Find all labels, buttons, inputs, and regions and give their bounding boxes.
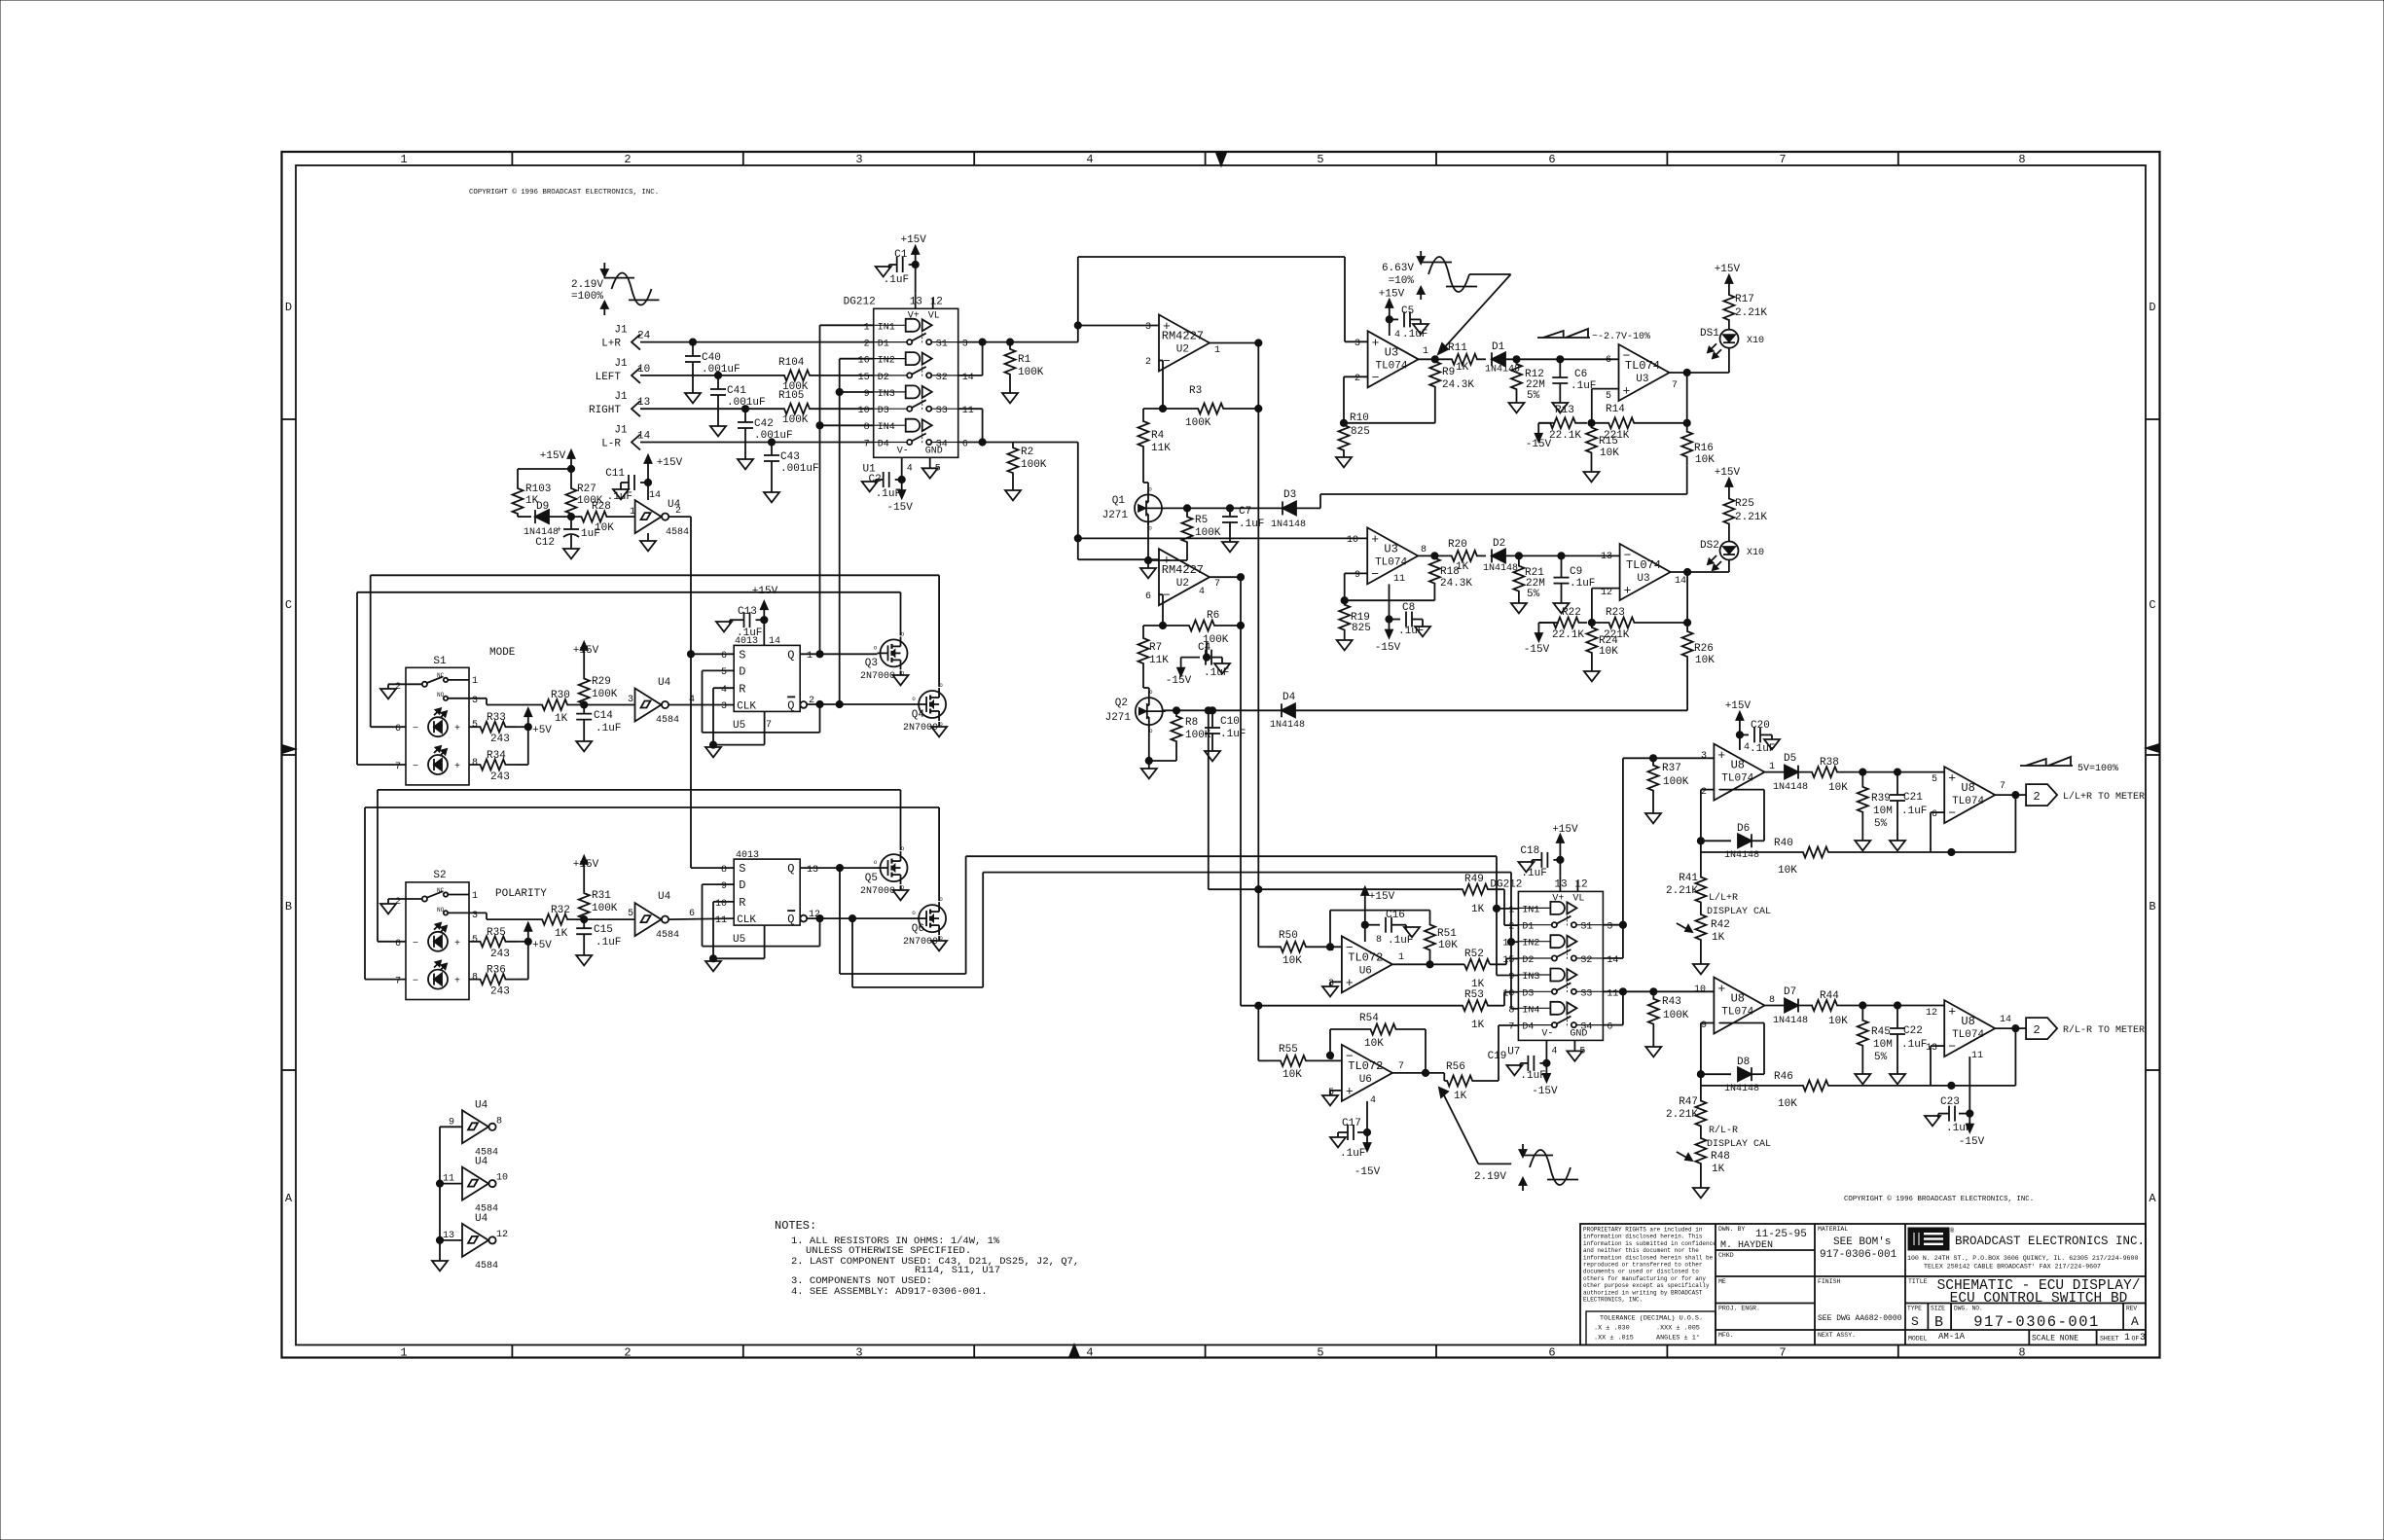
resistor R32 [469,905,584,940]
svg-text:GND: GND [925,446,943,456]
svg-text:+: + [454,762,460,772]
svg-text:and neither this document nor: and neither this document nor the [1583,1247,1699,1254]
svg-text:4: 4 [1744,742,1750,753]
svg-text:D4: D4 [1522,1022,1534,1033]
diode D8 [1701,1023,1764,1095]
transistor Q5 2N7000 [860,845,909,900]
svg-text:D3: D3 [878,406,889,416]
resistor R46 [1701,1071,1931,1110]
diode D7 [1764,986,1808,1026]
svg-text:TELEX 250142 CABLE BROADCAST: TELEX 250142 CABLE BROADCAST' FAX 217/22… [1924,1264,2101,1271]
resistor R2 [1005,443,1047,501]
svg-text:24.3K: 24.3K [1442,379,1474,391]
wire Q5 drain [900,790,902,850]
svg-text:4: 4 [1199,587,1205,597]
wire D2 out [1505,553,1620,559]
waveform annotation 2.19V=100% [571,263,660,315]
potentiometer R42 [1677,904,1730,974]
svg-text:14: 14 [637,431,651,443]
svg-text:R26: R26 [1694,643,1714,655]
wire U8C plus [1943,771,1945,773]
svg-text:R35: R35 [487,927,506,939]
title block company band with BE logo [1905,1227,2146,1276]
capacitor C9 [1554,555,1596,613]
svg-text:2: 2 [1355,374,1360,384]
svg-text:Q3: Q3 [865,658,878,669]
svg-text:R34: R34 [487,750,506,762]
wire Q3 drain [900,592,902,636]
svg-text:R51: R51 [1437,928,1457,940]
svg-text:L/L+R: L/L+R [1709,892,1738,904]
svg-text:R40: R40 [1774,838,1793,849]
svg-text:.1uF: .1uF [1901,806,1927,817]
diode D1 [1480,341,1520,376]
svg-text:Q6: Q6 [912,923,924,935]
svg-text:.1uF: .1uF [596,723,621,734]
svg-text:5: 5 [1317,1346,1323,1360]
svg-text:R104: R104 [778,357,805,369]
op-amp U8A TL074 [1701,742,1775,801]
svg-text:.001uF: .001uF [727,397,766,409]
wire U4 spare inputs to ground [432,1127,462,1271]
svg-text:S2: S2 [936,373,948,383]
svg-text:M. HAYDEN: M. HAYDEN [1720,1240,1773,1251]
inverter U4 pin3-4 [635,677,696,726]
wire S4 riser [1074,443,1159,560]
svg-text:5%: 5% [1874,1052,1888,1063]
svg-text:R9: R9 [1442,367,1455,378]
svg-text:IN2: IN2 [878,356,895,367]
svg-text:U8: U8 [1731,992,1745,1006]
svg-text:+15V: +15V [1715,264,1741,275]
svg-text:10K: 10K [1599,646,1618,658]
node R27/D9/R28/C12 [567,514,574,520]
svg-text:C2: C2 [868,474,881,485]
svg-text:IN1: IN1 [1522,905,1539,915]
wire D5 node [1851,769,1944,775]
svg-text:2: 2 [624,1346,631,1360]
wire U6A plus gnd [1322,982,1342,996]
svg-text:S1: S1 [1580,922,1592,933]
svg-text:TL074: TL074 [1625,359,1660,373]
svg-text:10K: 10K [1695,655,1715,666]
resistor R43 [1645,991,1689,1057]
svg-text:VL: VL [1572,893,1584,904]
svg-text:13: 13 [807,865,818,876]
svg-text:C41: C41 [727,385,746,397]
svg-text:.XXX ± .005: .XXX ± .005 [1656,1325,1700,1333]
resistor R16 [1681,423,1715,466]
svg-text:14: 14 [962,373,974,383]
svg-text:FINISH: FINISH [1818,1278,1841,1285]
svg-text:R36: R36 [487,965,506,977]
resistor R8 [1172,710,1211,747]
svg-text:6: 6 [962,440,968,450]
svg-text:5: 5 [721,667,727,678]
svg-text:U4: U4 [475,1099,488,1111]
svg-text:ANGLES ± 1°: ANGLES ± 1° [1656,1334,1700,1343]
svg-text:6: 6 [1607,1022,1612,1033]
capacitor C22 [1890,1006,1927,1085]
svg-text:6: 6 [1548,1346,1555,1360]
svg-text:22.1K: 22.1K [1552,629,1584,641]
wire U4#2 out [668,704,734,706]
svg-text:D5: D5 [1784,753,1796,765]
wire U5B Q to Q5 [800,865,877,872]
wire R103/R27 top [518,469,571,485]
svg-text:U6: U6 [1359,965,1372,977]
svg-text:10: 10 [1502,988,1514,999]
svg-text:C21: C21 [1903,792,1923,804]
svg-text:100 N. 24TH ST., P.O.BOX 3606: 100 N. 24TH ST., P.O.BOX 3606 QUINCY, IL… [1907,1255,2138,1262]
svg-text:3: 3 [1607,922,1612,933]
svg-text:+15V: +15V [540,450,566,462]
svg-text:C42: C42 [754,418,774,430]
svg-text:.1uF: .1uF [1220,729,1246,740]
svg-text:1: 1 [1398,952,1404,963]
svg-text:C18: C18 [1520,845,1539,857]
resistor R13 [1538,405,1587,442]
svg-text:10: 10 [496,1173,508,1184]
svg-text:1: 1 [1769,762,1775,772]
svg-text:ME: ME [1718,1278,1726,1285]
resistor R45 [1855,1006,1893,1085]
svg-text:5V=100%: 5V=100% [2077,764,2118,774]
diode D9 [518,501,571,538]
svg-text:.1uF: .1uF [1239,519,1264,530]
wire U8D minus [1931,1046,1944,1086]
wire U3D plus [1592,589,1620,623]
svg-text:TL072: TL072 [1348,950,1383,964]
svg-text:1: 1 [807,651,813,662]
svg-text:+: + [1624,584,1632,598]
svg-text:9: 9 [1508,972,1514,983]
svg-text:14: 14 [1607,955,1618,966]
svg-text:R2: R2 [1021,447,1033,458]
svg-text:3: 3 [628,695,633,705]
svg-text:R32: R32 [551,905,570,916]
resistor R27 [566,483,603,517]
analog switch U1 DG212 [844,293,974,480]
svg-text:+: + [1948,771,1956,786]
svg-text:4: 4 [689,695,695,705]
svg-text:8: 8 [1769,995,1775,1006]
svg-text:4: 4 [1370,1095,1376,1106]
wire R28 to U4 [617,507,635,518]
svg-text:1uF: 1uF [581,528,600,540]
svg-text:+5V: +5V [532,725,552,736]
resistor R38 [1798,757,1851,794]
svg-text:U5: U5 [733,720,745,732]
svg-text:V-: V- [897,446,909,456]
resistor R22 [1538,607,1587,641]
svg-text:R11: R11 [1448,342,1467,354]
svg-text:.1uF: .1uF [1398,626,1424,637]
svg-text:B: B [1934,1314,1943,1331]
svg-text:−: − [1371,567,1379,582]
svg-text:14: 14 [649,490,661,501]
resistor R21 [1511,555,1545,613]
resistor R50 [1258,889,1342,967]
wire U8C out [1995,792,2026,799]
wire U5B Qb to U7 bus [852,873,1518,1009]
title block model row [1908,1330,2146,1345]
connector J1 pin 14 L-R [601,425,650,450]
resistor R4 [1138,409,1172,459]
svg-text:+15V: +15V [573,859,599,871]
svg-text:U7: U7 [1507,1046,1520,1057]
svg-text:X10: X10 [1747,336,1764,346]
svg-text:5: 5 [1317,153,1323,166]
svg-text:IN4: IN4 [1522,1005,1539,1016]
svg-text:2.21K: 2.21K [1666,1109,1698,1121]
label R/L-R display cal [1707,1125,1771,1150]
svg-text:o: o [874,644,878,651]
svg-text:NC: NC [437,887,445,894]
svg-text:documents or used or disclosed: documents or used or disclosed to [1583,1269,1699,1275]
+15V rail U4 area [540,450,575,473]
svg-text:10K: 10K [1282,1069,1302,1081]
svg-text:.1uF: .1uF [1204,667,1229,679]
svg-text:7: 7 [2000,781,2005,792]
-15V at R13 [1526,423,1554,450]
LED DS1 [1700,321,1764,373]
notes [775,1219,1079,1298]
resistor R10 [1336,412,1370,467]
svg-text:8: 8 [496,1116,502,1127]
svg-text:4: 4 [1394,330,1400,340]
svg-text:10M: 10M [1873,806,1893,817]
svg-text:U3: U3 [1384,542,1397,555]
switch S1 [395,647,516,785]
wire U4#1 out [668,517,734,868]
op-amp U3C TL074 [1347,527,1427,584]
svg-text:6: 6 [1606,355,1611,366]
svg-text:.XX ± .015: .XX ± .015 [1594,1335,1634,1343]
svg-text:C4: C4 [1198,642,1211,654]
svg-text:S3: S3 [1580,988,1592,999]
svg-text:C14: C14 [594,710,613,722]
svg-text:2: 2 [864,340,870,350]
svg-text:PROJ. ENGR.: PROJ. ENGR. [1718,1306,1760,1312]
resistor R56 [1444,1025,1518,1102]
svg-text:10K: 10K [1695,454,1715,466]
wire top bus to U3A [1078,257,1368,341]
svg-text:+15V: +15V [1379,289,1405,301]
wire L-R [640,439,874,446]
svg-text:NO: NO [437,907,445,913]
wire U7 S2 join [1603,925,1623,958]
svg-text:R47: R47 [1679,1096,1698,1108]
svg-text:S1: S1 [433,656,447,667]
svg-text:PROPRIETARY RIGHTS are include: PROPRIETARY RIGHTS are included in [1583,1227,1703,1234]
inverter U4 pin9-8 [449,1099,502,1158]
svg-text:−: − [1163,589,1171,603]
svg-text:7: 7 [1398,1061,1404,1072]
svg-text:2.19V: 2.19V [1474,1171,1506,1183]
svg-text:1: 1 [400,153,407,166]
svg-text:D1: D1 [1522,922,1534,933]
svg-text:13: 13 [1926,1043,1937,1054]
wire U2B out [1210,574,1245,581]
svg-text:2: 2 [1701,787,1707,798]
svg-text:8: 8 [2018,153,2025,166]
diode D4 [1270,692,1305,731]
svg-text:1: 1 [1508,905,1514,915]
resistor R33 [469,712,517,745]
svg-text:15: 15 [1502,955,1514,966]
svg-text:RIGHT: RIGHT [589,405,621,416]
svg-text:R30: R30 [551,690,570,701]
svg-text:3: 3 [1328,979,1334,989]
svg-text:+: + [1346,976,1354,990]
capacitor C17 and -15V [1330,1101,1381,1178]
svg-text:R56: R56 [1446,1061,1465,1073]
svg-text:C40: C40 [702,352,721,364]
svg-text:Q1: Q1 [1112,495,1126,507]
svg-text:A: A [285,1192,293,1205]
svg-text:C10: C10 [1220,716,1240,728]
svg-text:+5V: +5V [532,940,552,951]
svg-text:-15V: -15V [1375,642,1401,654]
svg-text:RM4227: RM4227 [1162,563,1204,577]
svg-text:1K: 1K [1712,932,1725,944]
wire R30 to U4#2 [584,695,634,705]
svg-text:10: 10 [1694,985,1706,995]
svg-text:-15V: -15V [1355,1166,1381,1178]
svg-text:−: − [413,939,418,949]
capacitor C41 [710,376,766,437]
node U3C out [1418,553,1449,559]
svg-text:C5: C5 [1401,305,1414,317]
capacitor C21 [1890,772,1927,851]
op-amp U8D TL074 [1926,1000,2011,1061]
svg-text:V-: V- [1541,1028,1553,1039]
wire U7 S4 join [1603,991,1623,1024]
svg-text:1K: 1K [1471,1020,1485,1031]
wire U2B riser to R53 [1241,1002,1450,1009]
svg-text:Q4: Q4 [912,709,925,721]
connector J1 pin 13 RIGHT [589,391,650,416]
svg-text:9: 9 [1355,570,1360,581]
svg-text:7: 7 [864,440,870,450]
op-amp U8C TL074 [1932,767,2005,823]
svg-text:16: 16 [1502,939,1514,949]
svg-text:DISPLAY CAL: DISPLAY CAL [1707,907,1771,917]
svg-text:7: 7 [395,762,401,772]
resistor R52 [1464,949,1518,990]
op-amp U2B RM4227 [1145,549,1220,605]
wire U8D feedback [1931,1028,2015,1089]
svg-text:11-25-95: 11-25-95 [1755,1229,1807,1240]
svg-text:L+R: L+R [601,339,621,350]
svg-text:R17: R17 [1735,294,1754,305]
svg-text:R48: R48 [1711,1151,1730,1163]
resistor R15 [1584,423,1620,483]
copyright bottom [1844,1195,2034,1203]
wire D1 out [1505,356,1619,363]
svg-text:+15V: +15V [1715,467,1741,479]
svg-text:SIZE: SIZE [1931,1306,1945,1312]
svg-text:+: + [454,939,460,949]
svg-text:TL074: TL074 [1375,556,1407,568]
wire U6B plus gnd [1322,1091,1342,1106]
svg-text:10K: 10K [1778,865,1797,877]
svg-text:10K: 10K [1778,1098,1797,1110]
svg-text:S3: S3 [936,406,948,416]
svg-text:SEE DWG AA682-0000: SEE DWG AA682-0000 [1818,1314,1902,1323]
wire U6B out [1392,1069,1444,1076]
resistor R47 [1666,1086,1706,1128]
svg-text:o: o [912,910,916,916]
svg-text:2.19V: 2.19V [571,279,603,291]
svg-text:2N7000: 2N7000 [860,671,895,682]
output connector L/L+R to meter [2026,784,2145,806]
svg-text:+: + [557,525,561,535]
svg-text:L-R: L-R [601,439,621,450]
svg-text:U5: U5 [733,934,745,946]
svg-text:6: 6 [1548,153,1555,166]
resistor R31 [573,856,618,919]
svg-text:C43: C43 [780,451,800,463]
svg-text:other purpose except as specif: other purpose except as specifically [1583,1282,1710,1289]
svg-text:R52: R52 [1464,949,1484,960]
svg-text:1N4148: 1N4148 [1270,720,1305,731]
svg-text:C6: C6 [1574,369,1587,380]
svg-text:6: 6 [395,724,401,734]
svg-text:+: + [1346,1084,1354,1098]
svg-text:3: 3 [855,153,862,166]
resistor R7 [1138,626,1170,676]
resistor R9 [1429,359,1474,391]
svg-text:100K: 100K [782,414,809,426]
svg-text:5%: 5% [1527,589,1540,600]
svg-text:C19: C19 [1488,1051,1507,1062]
wire D4 out [1295,706,1687,710]
wire U3A minus [1344,376,1368,423]
svg-text:10: 10 [637,364,650,376]
svg-text:A: A [2149,1192,2156,1205]
svg-text:R49: R49 [1464,874,1484,885]
wire Q2 row [1163,707,1282,714]
title block sign-off column [1716,1226,1815,1339]
svg-text:C: C [2149,598,2155,612]
wire R7 to Q2 top [1143,676,1149,696]
svg-text:D9: D9 [536,501,549,513]
svg-text:D2: D2 [1522,955,1534,966]
svg-text:1: 1 [1423,346,1428,357]
resistor R34 [469,750,517,783]
wire to U3C plus [1078,537,1367,539]
+5V at R35/R36 [517,923,552,980]
wire R23 riser [1686,572,1688,623]
title block tolerance box [1586,1311,1716,1345]
resistor R49 [1450,874,1518,925]
svg-text:R55: R55 [1279,1044,1298,1056]
output connector R/L-R to meter [2026,1018,2145,1039]
svg-text:4584: 4584 [666,527,689,538]
svg-text:U2: U2 [1176,578,1189,590]
svg-text:1: 1 [2124,1333,2130,1343]
wire polarity rail2 [365,807,939,980]
svg-text:11: 11 [1393,574,1405,585]
switch S2 [395,870,547,1000]
svg-text:~-2.7V-10%: ~-2.7V-10% [1592,332,1650,342]
node U3A out [1419,356,1449,363]
svg-text:D3: D3 [1283,489,1296,501]
svg-text:13: 13 [637,397,650,409]
svg-text:U4: U4 [475,1157,488,1168]
